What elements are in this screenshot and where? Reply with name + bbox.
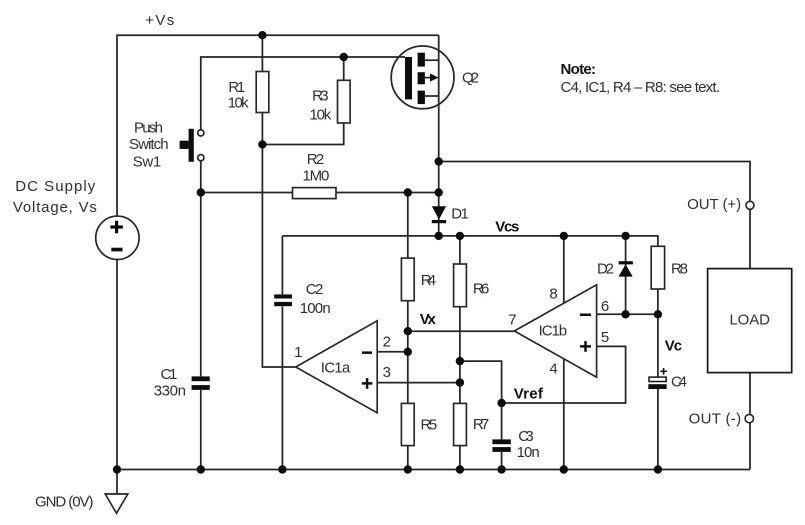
diode D1: [432, 206, 446, 219]
svg-text:Vc: Vc: [665, 337, 682, 354]
svg-text:C2: C2: [306, 281, 324, 298]
resistor R6: [454, 264, 467, 307]
svg-text:2: 2: [383, 333, 391, 350]
svg-text:4: 4: [549, 360, 557, 377]
svg-text:Vcs: Vcs: [495, 219, 519, 236]
node +Vs/R1: [258, 31, 266, 39]
wire R2 rail: [201, 192, 439, 194]
svg-text:100n: 100n: [300, 300, 331, 317]
resistor R3: [338, 80, 351, 123]
ground: [116, 470, 118, 495]
svg-text:Vref: Vref: [514, 385, 544, 402]
svg-text:Switch: Switch: [129, 136, 169, 153]
svg-text:IC1a: IC1a: [321, 360, 351, 377]
resistor R1: [256, 72, 269, 113]
LOAD box: [708, 269, 792, 373]
svg-text:Vx: Vx: [420, 311, 437, 328]
svg-text:330n: 330n: [154, 383, 186, 400]
wire R1 branch down to IC1a pin 1: [262, 35, 295, 367]
svg-text:R4: R4: [421, 272, 436, 289]
svg-text:8: 8: [549, 286, 557, 303]
wire left supply lower segment: [116, 259, 118, 469]
svg-text:C4: C4: [671, 373, 687, 390]
wire Vcs rail: [282, 236, 658, 246]
op-amp U2 IC1b: [514, 285, 596, 377]
svg-text:1M0: 1M0: [303, 168, 330, 185]
svg-text:Note:: Note:: [561, 61, 597, 78]
node D2/pin6: [621, 310, 629, 318]
wire IC1b pin 6: [597, 313, 658, 315]
wire R6 bottom to Vref node: [460, 361, 502, 403]
wire bottom ground rail: [117, 469, 750, 471]
resistor R8: [651, 246, 664, 289]
node switch/R2 rail: [197, 188, 205, 196]
svg-text:C4, IC1, R4 – R8: see text.: C4, IC1, R4 – R8: see text.: [561, 79, 721, 96]
node D2/Vcs: [621, 232, 629, 240]
svg-text:10n: 10n: [517, 444, 540, 461]
svg-text:DC Supply: DC Supply: [15, 178, 95, 195]
node Vref: [497, 399, 505, 407]
node R5 bottom: [404, 465, 412, 473]
node R4 top: [404, 188, 412, 196]
node R6 bottom branch: [456, 357, 464, 365]
wire switch to C1 to bottom rail: [200, 161, 202, 470]
node R8/pin6: [654, 310, 662, 318]
svg-text:C1: C1: [161, 366, 178, 383]
svg-text:LOAD: LOAD: [729, 312, 770, 329]
svg-text:10k: 10k: [228, 95, 249, 112]
capacitor C2: [274, 294, 292, 298]
svg-text:+Vs: +Vs: [145, 12, 174, 29]
resistor R5: [401, 403, 414, 445]
svg-text:Q2: Q2: [462, 69, 479, 86]
svg-text:R3: R3: [312, 88, 329, 105]
svg-text:OUT (+): OUT (+): [687, 196, 741, 213]
node R2 rail/Q2: [435, 188, 443, 196]
wire gate rail to Q2: [201, 57, 405, 130]
node IC1b power bottom: [560, 465, 568, 473]
svg-text:6: 6: [601, 298, 609, 315]
wire C2 branch: [281, 236, 283, 470]
MOSFET Q2: [391, 46, 454, 109]
node pin3/R6: [456, 378, 464, 386]
wire IC1a pin 2: [377, 351, 408, 353]
resistor R2: [293, 188, 337, 199]
wire R4 R5 vertical: [407, 193, 409, 470]
capacitor C4 polarized: [649, 377, 666, 381]
svg-text:5: 5: [601, 329, 609, 346]
svg-text:R5: R5: [421, 417, 438, 434]
node C1 bottom: [197, 465, 205, 473]
node R7 bottom: [456, 465, 464, 473]
wire to OUT (+): [439, 162, 750, 470]
op-amp U1 IC1a: [296, 321, 378, 413]
wire IC1b pin 5 to Vref: [502, 346, 626, 403]
node C2 bottom: [278, 465, 286, 473]
wire R3 branch: [262, 57, 343, 145]
wire IC1b power vertical: [563, 236, 565, 470]
resistor R4: [401, 258, 414, 301]
svg-text:GND (0V): GND (0V): [35, 494, 94, 511]
svg-text:R6: R6: [473, 281, 489, 298]
wire IC1a pin 3: [377, 382, 460, 384]
wire D2 branch: [625, 236, 627, 314]
svg-text:Sw1: Sw1: [133, 153, 162, 170]
svg-text:Push: Push: [134, 119, 163, 136]
capacitor C3: [492, 439, 510, 444]
node C4 bottom: [654, 465, 662, 473]
svg-text:C3: C3: [518, 428, 533, 445]
node R6/Vcs: [456, 232, 464, 240]
svg-text:7: 7: [508, 312, 516, 329]
node GND junction: [113, 465, 121, 473]
svg-text:3: 3: [383, 364, 391, 381]
terminal OUT (-): [745, 414, 753, 422]
svg-text:D1: D1: [451, 205, 469, 222]
wire Q2 drain-source vertical: [438, 35, 440, 236]
node Vx: [404, 327, 412, 335]
node OUT+ branch: [435, 157, 443, 165]
capacitor C1: [192, 376, 210, 381]
svg-text:Voltage, Vs: Voltage, Vs: [13, 199, 97, 216]
push switch Sw1: [189, 129, 194, 162]
wire Vref node to C3 to bottom rail: [501, 403, 503, 470]
node R1/R3 bottom: [258, 140, 266, 148]
svg-text:10k: 10k: [310, 106, 332, 123]
node gate rail/R3: [340, 53, 348, 61]
diode D2: [619, 264, 633, 276]
node D1/Vcs: [435, 232, 443, 240]
DC supply source V1: [96, 216, 139, 259]
wire Vx to IC1b pin 7: [408, 330, 515, 332]
wire R6 R7 vertical: [459, 236, 461, 470]
node pin2/R4: [404, 348, 412, 356]
wire +Vs top rail: [117, 35, 439, 216]
svg-text:IC1b: IC1b: [539, 322, 568, 339]
svg-text:R2: R2: [307, 151, 324, 168]
svg-text:R1: R1: [228, 79, 245, 96]
svg-text:D2: D2: [597, 261, 614, 278]
node C3 bottom: [497, 465, 505, 473]
svg-text:OUT (-): OUT (-): [689, 411, 742, 428]
svg-text:R8: R8: [671, 261, 688, 278]
resistor R7: [454, 403, 467, 445]
node IC1b power/Vcs: [560, 232, 568, 240]
svg-text:1: 1: [294, 344, 302, 361]
wire R8 C4 vertical: [657, 289, 659, 470]
terminal OUT (+): [746, 201, 754, 209]
svg-text:R7: R7: [473, 416, 489, 433]
